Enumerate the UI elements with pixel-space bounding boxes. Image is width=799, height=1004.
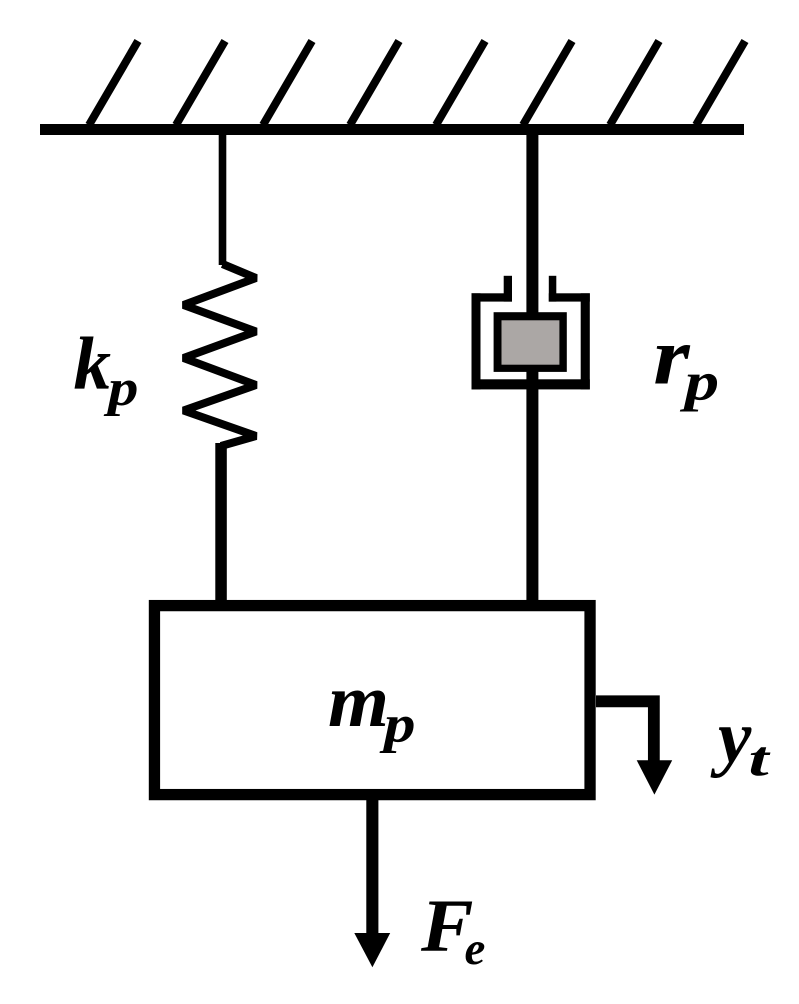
wire: damper bottom rod <box>526 370 538 603</box>
ceiling hatch marks <box>89 41 745 125</box>
svg-text:e: e <box>465 923 486 975</box>
svg-text:m: m <box>328 660 389 743</box>
wire: y_t takeoff line <box>596 701 654 763</box>
wire: spring top rod <box>219 130 227 265</box>
wire: damper top rod <box>526 130 538 320</box>
arrowhead y_t <box>637 760 673 794</box>
spring k_p zigzag <box>184 264 257 446</box>
wire: F_e force line <box>366 795 378 938</box>
wire: spring bottom rod <box>215 443 227 603</box>
svg-text:p: p <box>379 694 416 753</box>
damper cylinder cup <box>472 276 590 390</box>
svg-text:y: y <box>710 696 752 779</box>
damper piston <box>494 312 567 372</box>
svg-text:p: p <box>103 360 139 417</box>
svg-text:p: p <box>679 352 719 412</box>
ceiling fixed support line <box>40 124 744 135</box>
svg-text:k: k <box>74 323 112 406</box>
svg-text:t: t <box>749 732 771 787</box>
arrowhead F_e <box>354 933 390 967</box>
mass m_p box <box>154 606 590 795</box>
